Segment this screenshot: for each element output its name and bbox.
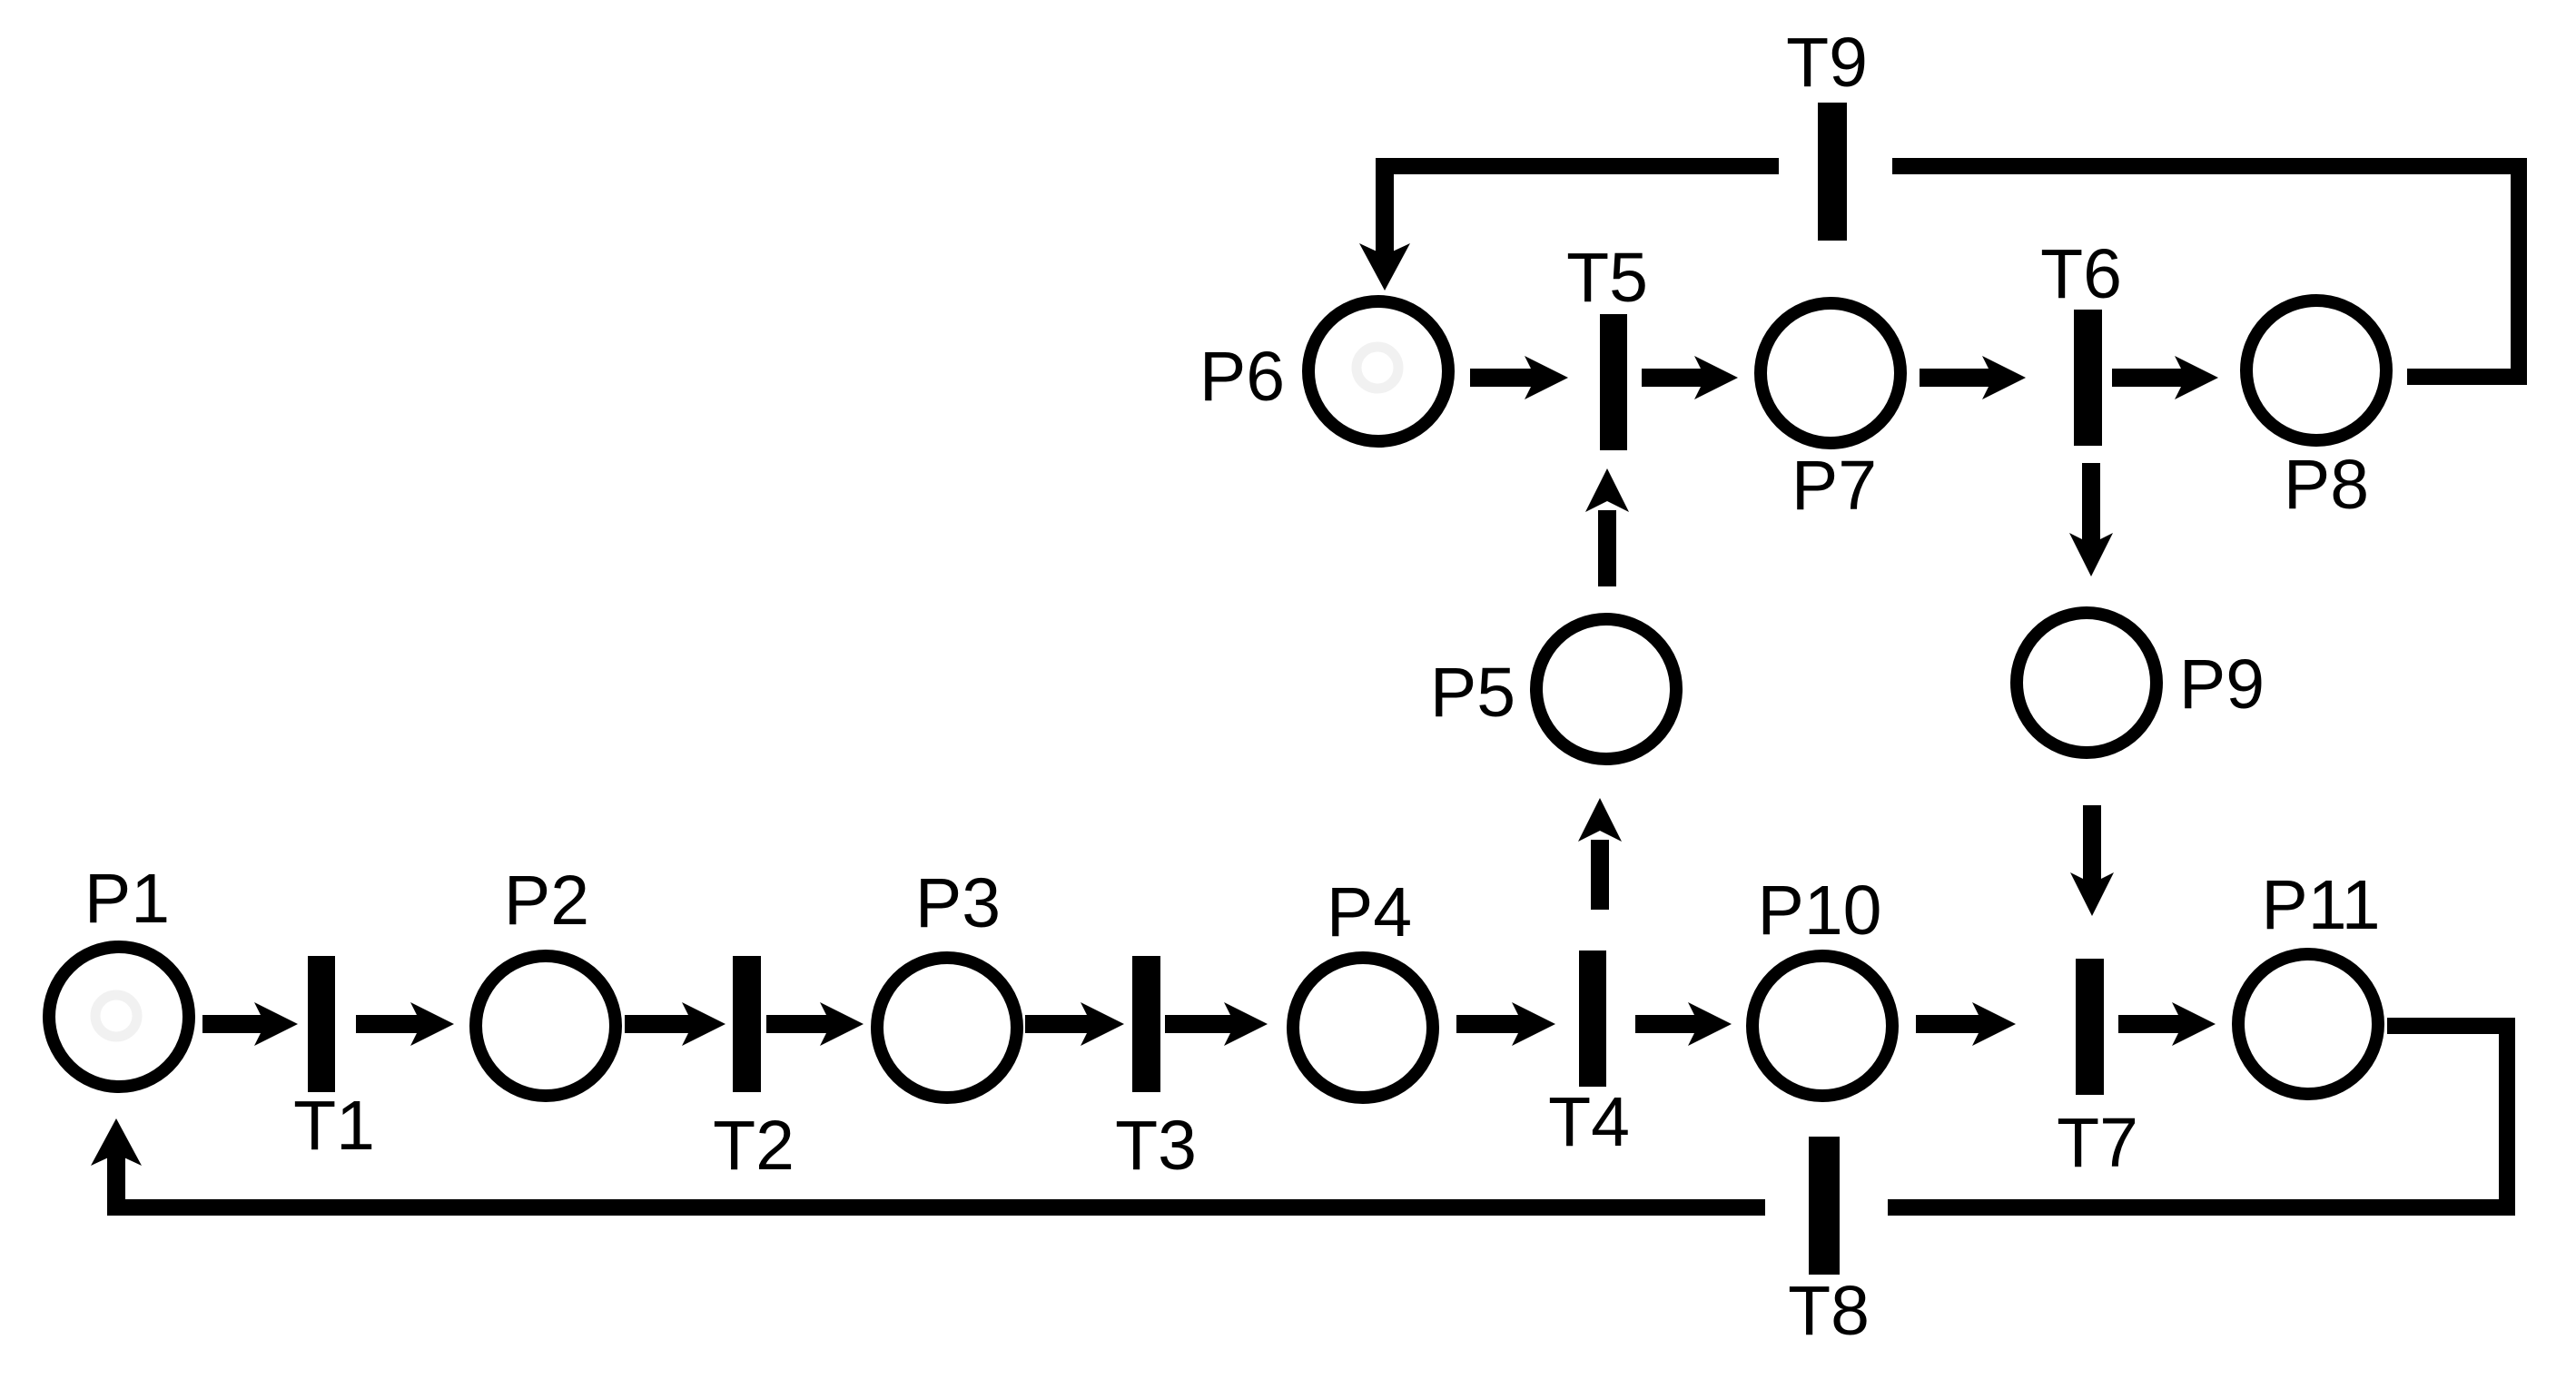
- arc P5 to T5 (up): [1585, 468, 1629, 586]
- arc P7 to T6: [1920, 356, 2026, 399]
- place P3: [877, 958, 1017, 1098]
- svg-text:P3: P3: [915, 864, 1001, 942]
- arc P3 to T3: [1025, 1002, 1124, 1046]
- place P2: [476, 956, 616, 1096]
- wire T8 line left segment: [107, 1199, 1765, 1216]
- arc P4 to T4: [1456, 1002, 1555, 1046]
- svg-text:T2: T2: [713, 1107, 795, 1185]
- place P4: [1293, 958, 1433, 1098]
- svg-text:P8: P8: [2284, 446, 2369, 524]
- transition T7: [2076, 959, 2104, 1095]
- svg-text:T7: T7: [2057, 1104, 2138, 1182]
- wire P8 to right elbow: [2407, 369, 2527, 385]
- place P9: [2017, 613, 2157, 753]
- place P8: [2246, 300, 2386, 440]
- arc P1 to T1: [202, 1002, 298, 1046]
- wire left elbow down from T9 line: [1376, 158, 1394, 258]
- svg-text:T1: T1: [293, 1087, 375, 1165]
- transition T3: [1132, 956, 1160, 1092]
- svg-text:P10: P10: [1757, 872, 1881, 950]
- svg-text:T6: T6: [2040, 235, 2122, 313]
- place P6: [1308, 301, 1448, 441]
- wire T9 line left segment: [1376, 158, 1779, 174]
- transition T8: [1809, 1137, 1840, 1275]
- svg-text:P1: P1: [84, 860, 170, 938]
- svg-text:P11: P11: [2261, 866, 2380, 944]
- wire left vertical up toward P1: [107, 1149, 125, 1216]
- arc T6 to P9 (down): [2069, 463, 2113, 576]
- transition T9: [1818, 103, 1847, 241]
- arrowhead into P6: [1359, 243, 1410, 291]
- svg-text:P7: P7: [1791, 447, 1877, 525]
- svg-text:T5: T5: [1566, 239, 1648, 317]
- svg-text:P6: P6: [1199, 338, 1285, 416]
- arc T2 to P3: [766, 1002, 864, 1046]
- transition T5: [1600, 314, 1627, 450]
- arc P10 to T7: [1916, 1002, 2016, 1046]
- svg-text:P5: P5: [1430, 654, 1515, 732]
- arc P6 to T5: [1470, 356, 1568, 399]
- svg-text:T8: T8: [1788, 1272, 1870, 1350]
- place P5: [1536, 619, 1676, 759]
- wire P11 to right elbow: [2387, 1018, 2515, 1034]
- wire T9 line right segment: [1892, 158, 2527, 174]
- svg-text:T4: T4: [1548, 1083, 1630, 1161]
- arc T1 to P2: [356, 1002, 454, 1046]
- wire right vertical down to T8 line: [2499, 1018, 2515, 1216]
- svg-text:P9: P9: [2179, 645, 2265, 724]
- transition T2: [733, 956, 761, 1092]
- arc T6 to P8: [2112, 356, 2218, 399]
- arc P9 to T7 (down): [2070, 805, 2114, 916]
- svg-text:P2: P2: [504, 862, 589, 940]
- arc T4 to P5 (up): [1578, 798, 1622, 910]
- transition T4: [1579, 951, 1606, 1087]
- arc T4 to P10: [1635, 1002, 1732, 1046]
- wire right vertical up to T9 line: [2511, 158, 2527, 385]
- arrowhead into P1: [91, 1118, 142, 1166]
- arc T3 to P4: [1165, 1002, 1268, 1046]
- transition T6: [2074, 310, 2102, 446]
- svg-text:T9: T9: [1786, 24, 1868, 102]
- place P7: [1761, 303, 1900, 443]
- svg-text:T3: T3: [1115, 1107, 1197, 1185]
- transition T1: [308, 956, 335, 1092]
- place P10: [1752, 956, 1892, 1096]
- arc P2 to T2: [625, 1002, 725, 1046]
- place P1: [49, 947, 189, 1087]
- wire T8 line right segment: [1888, 1199, 2515, 1216]
- svg-text:P4: P4: [1327, 873, 1412, 951]
- place P11: [2238, 954, 2378, 1094]
- arc T7 to P11: [2118, 1002, 2216, 1046]
- arc T5 to P7: [1642, 356, 1738, 399]
